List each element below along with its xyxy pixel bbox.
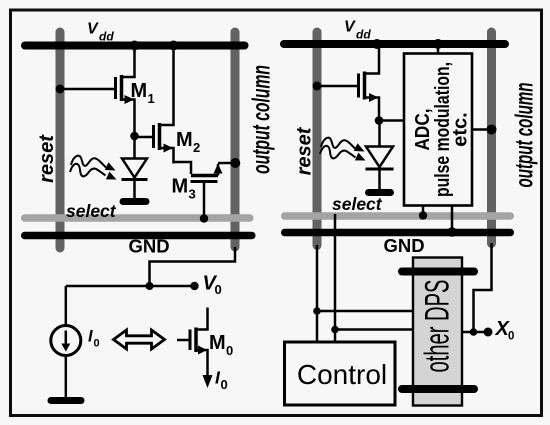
wire: ADC box to GND	[451, 206, 454, 232]
wire: M2 gate lead	[135, 136, 153, 139]
ground bar of photodiode D2	[369, 189, 391, 196]
svg-text:3: 3	[189, 187, 196, 202]
wire: to other DPS (row 2)	[335, 328, 413, 331]
transistor M1 (reset NMOS)	[116, 47, 135, 136]
node: junction dot	[146, 282, 154, 290]
reset rail (left, vertical gray bar)	[56, 32, 65, 248]
wire: to other DPS (row 1)	[317, 310, 413, 313]
svg-text:M: M	[131, 80, 148, 102]
wire: M3 gate to select rail	[203, 182, 206, 216]
output column rail (right)	[487, 32, 496, 244]
output column rail (left, vertical gray bar)	[231, 32, 240, 247]
light arrow 1 (left photodiode)	[71, 156, 116, 171]
equivalence double arrow	[114, 330, 165, 349]
GND rail (right)	[285, 229, 511, 237]
net label: Vdd (left)	[87, 21, 114, 44]
svg-text:ADC,: ADC,	[412, 109, 434, 151]
label M3	[172, 176, 196, 202]
Vdd rail (right)	[284, 40, 505, 48]
photodiode D1	[122, 159, 148, 199]
svg-text:select: select	[66, 201, 117, 221]
svg-text:reset: reset	[294, 126, 316, 175]
node: junction dot M2 drain on Vdd	[169, 41, 179, 51]
svg-text:M: M	[209, 332, 226, 354]
label V0	[203, 273, 222, 298]
node: junction dot on reset rail (right)	[313, 82, 322, 91]
svg-text:2: 2	[193, 140, 200, 155]
photodiode D2 anode wire	[378, 121, 381, 147]
wire: other DPS to X0	[462, 331, 486, 334]
GND rail (left, black bar)	[25, 232, 252, 240]
wire: M1 gate lead	[60, 88, 114, 91]
transistor M3 (row select NMOS, drawn horizontally)	[191, 164, 223, 182]
light arrow 2 (left photodiode)	[70, 164, 117, 180]
transistor M2 (source follower NMOS)	[154, 47, 174, 164]
wire: select down to Control	[334, 214, 337, 342]
svg-text:GND: GND	[129, 236, 170, 257]
node: dot on output column rail	[230, 158, 240, 168]
bus bar (bottom of other DPS)	[402, 385, 474, 393]
ground bar of photodiode D1	[123, 198, 146, 205]
wire: output column down to V0 node	[150, 247, 236, 283]
node: junction dot on X0 wire	[470, 328, 478, 336]
wire: ADC box to output column	[472, 128, 488, 131]
light arrow 1 (right photodiode)	[321, 138, 365, 152]
photodiode D1 anode wire	[133, 136, 136, 158]
wire: M3 drain to output column	[218, 162, 234, 165]
svg-text:V: V	[87, 21, 99, 38]
wire: current source to ground	[65, 356, 68, 398]
node: M3 gate dot on select rail	[200, 214, 208, 222]
svg-text:0: 0	[508, 331, 514, 343]
node: junction dot on reset-control wire	[313, 307, 321, 315]
label M2	[176, 129, 200, 155]
other DPS block	[413, 258, 462, 406]
wire: M2 source to M3	[174, 162, 192, 174]
svg-text:other DPS: other DPS	[418, 280, 456, 373]
ADC block U1	[404, 54, 472, 206]
node: junction dot on select-control wire	[331, 326, 339, 334]
svg-text:I: I	[88, 328, 93, 346]
label M1	[131, 80, 155, 106]
svg-text:etc.: etc.	[450, 112, 472, 146]
svg-text:output column: output column	[511, 83, 539, 188]
wire: output column down to X0	[474, 243, 492, 332]
svg-text:M: M	[172, 176, 189, 198]
svg-text:reset: reset	[36, 134, 58, 183]
wire: Vdd to ADC box	[437, 45, 440, 53]
node X0 terminal dot	[484, 328, 493, 337]
svg-text:GND: GND	[384, 235, 425, 256]
wire: ADC box to select	[422, 206, 425, 214]
wire: to current source I0	[65, 286, 68, 326]
arrow: I0 current direction	[203, 375, 213, 388]
select rail (left, gray line)	[25, 214, 250, 222]
svg-text:0: 0	[94, 338, 100, 350]
node: junction dot M1 drain on Vdd	[130, 41, 140, 51]
svg-text:output column: output column	[248, 65, 276, 174]
svg-text:0: 0	[226, 343, 233, 358]
svg-text:select: select	[332, 194, 383, 214]
node: dot on output column (right)	[487, 125, 497, 135]
label X0	[495, 318, 515, 343]
svg-text:dd: dd	[99, 30, 114, 44]
node: dot on GND rail (right)	[447, 227, 457, 237]
node: sense node dot (right)	[375, 116, 384, 125]
node V0 terminal dot	[190, 282, 198, 290]
svg-text:V: V	[344, 19, 356, 36]
photodiode D2	[366, 147, 394, 190]
light arrow 2 (right photodiode)	[320, 146, 366, 161]
transistor: reset NMOS (right pixel)	[359, 46, 380, 119]
node: dot on Vdd (reset transistor drain)	[372, 39, 382, 49]
label I0 (below M0)	[215, 368, 228, 393]
svg-text:0: 0	[221, 377, 228, 392]
net label: Vdd (right)	[344, 19, 371, 42]
wire: V0 horizontal	[66, 285, 193, 288]
node: sense node dot (M1 source / photodiode / M2 gate)	[130, 132, 139, 141]
node: dot on select rail (right)	[419, 211, 427, 219]
bus bar (top of other DPS)	[402, 268, 474, 276]
svg-text:dd: dd	[356, 28, 371, 42]
Vdd rail (left, thick black bar)	[25, 42, 245, 50]
wire: sense node to ADC box	[379, 119, 404, 122]
current source I0	[51, 326, 81, 356]
node: dot on Vdd (ADC supply)	[433, 39, 443, 49]
svg-text:1: 1	[148, 91, 155, 106]
ground (left bottom)	[51, 397, 81, 404]
label M0	[209, 332, 233, 358]
Control block	[285, 342, 396, 405]
reset rail (right)	[313, 32, 322, 246]
svg-text:M: M	[176, 129, 193, 151]
svg-text:Control: Control	[297, 359, 387, 390]
transistor M0 (current mirror NMOS)	[190, 308, 208, 377]
node: junction dot on reset rail (M1 gate)	[56, 85, 65, 94]
wire: M0 gate lead	[177, 339, 189, 342]
select rail (right)	[285, 212, 511, 220]
wire: reset transistor gate lead	[317, 85, 357, 88]
label I0	[88, 328, 100, 350]
wire: reset rail down to Control	[316, 245, 319, 342]
svg-text:0: 0	[215, 282, 222, 297]
